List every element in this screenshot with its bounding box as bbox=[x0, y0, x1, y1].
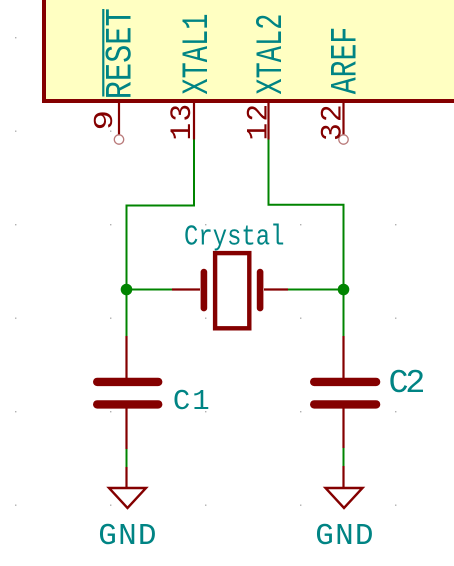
svg-text:AREF: AREF bbox=[326, 27, 368, 95]
svg-text:12: 12 bbox=[242, 103, 276, 141]
wire C1 to GND bbox=[126, 448, 128, 468]
wire left junction down to C1 bbox=[126, 290, 128, 338]
grid dots bbox=[15, 37, 396, 506]
pin 9 RESET of U1 bbox=[90, 8, 142, 144]
ground symbol right bbox=[315, 466, 374, 554]
capacitor C2 bbox=[310, 336, 423, 448]
svg-text:C2: C2 bbox=[389, 365, 424, 403]
crystal Y1 bbox=[172, 253, 288, 328]
label Crystal bbox=[184, 220, 285, 253]
svg-text:9: 9 bbox=[90, 110, 120, 131]
ground symbol left bbox=[98, 467, 157, 554]
svg-text:13: 13 bbox=[165, 103, 199, 141]
pin 12 XTAL2 of U1 bbox=[242, 14, 294, 141]
IC U1 body (partial, top off-canvas) bbox=[44, 0, 454, 101]
pin 32 AREF of U1 bbox=[316, 27, 368, 144]
svg-text:GND: GND bbox=[98, 519, 157, 554]
svg-text:GND: GND bbox=[315, 519, 374, 554]
wire XTAL1 to left column bbox=[127, 140, 195, 290]
wire XTAL2 to right column bbox=[269, 140, 344, 290]
capacitor C1 bbox=[93, 336, 212, 449]
junction left node bbox=[121, 284, 133, 296]
svg-text:XTAL1: XTAL1 bbox=[177, 14, 219, 95]
wire right junction down to C2 bbox=[343, 290, 345, 338]
wire crystal right pin to right junction bbox=[288, 289, 344, 291]
wire left junction to crystal left pin bbox=[127, 289, 174, 291]
svg-text:RESET: RESET bbox=[101, 8, 143, 99]
pin 13 XTAL1 of U1 bbox=[165, 14, 219, 141]
svg-text:32: 32 bbox=[316, 103, 350, 141]
svg-text:C1: C1 bbox=[173, 385, 212, 418]
svg-text:Crystal: Crystal bbox=[184, 220, 285, 253]
svg-text:XTAL2: XTAL2 bbox=[251, 14, 293, 95]
junction right node bbox=[338, 284, 350, 296]
wire C2 to GND bbox=[343, 447, 345, 467]
